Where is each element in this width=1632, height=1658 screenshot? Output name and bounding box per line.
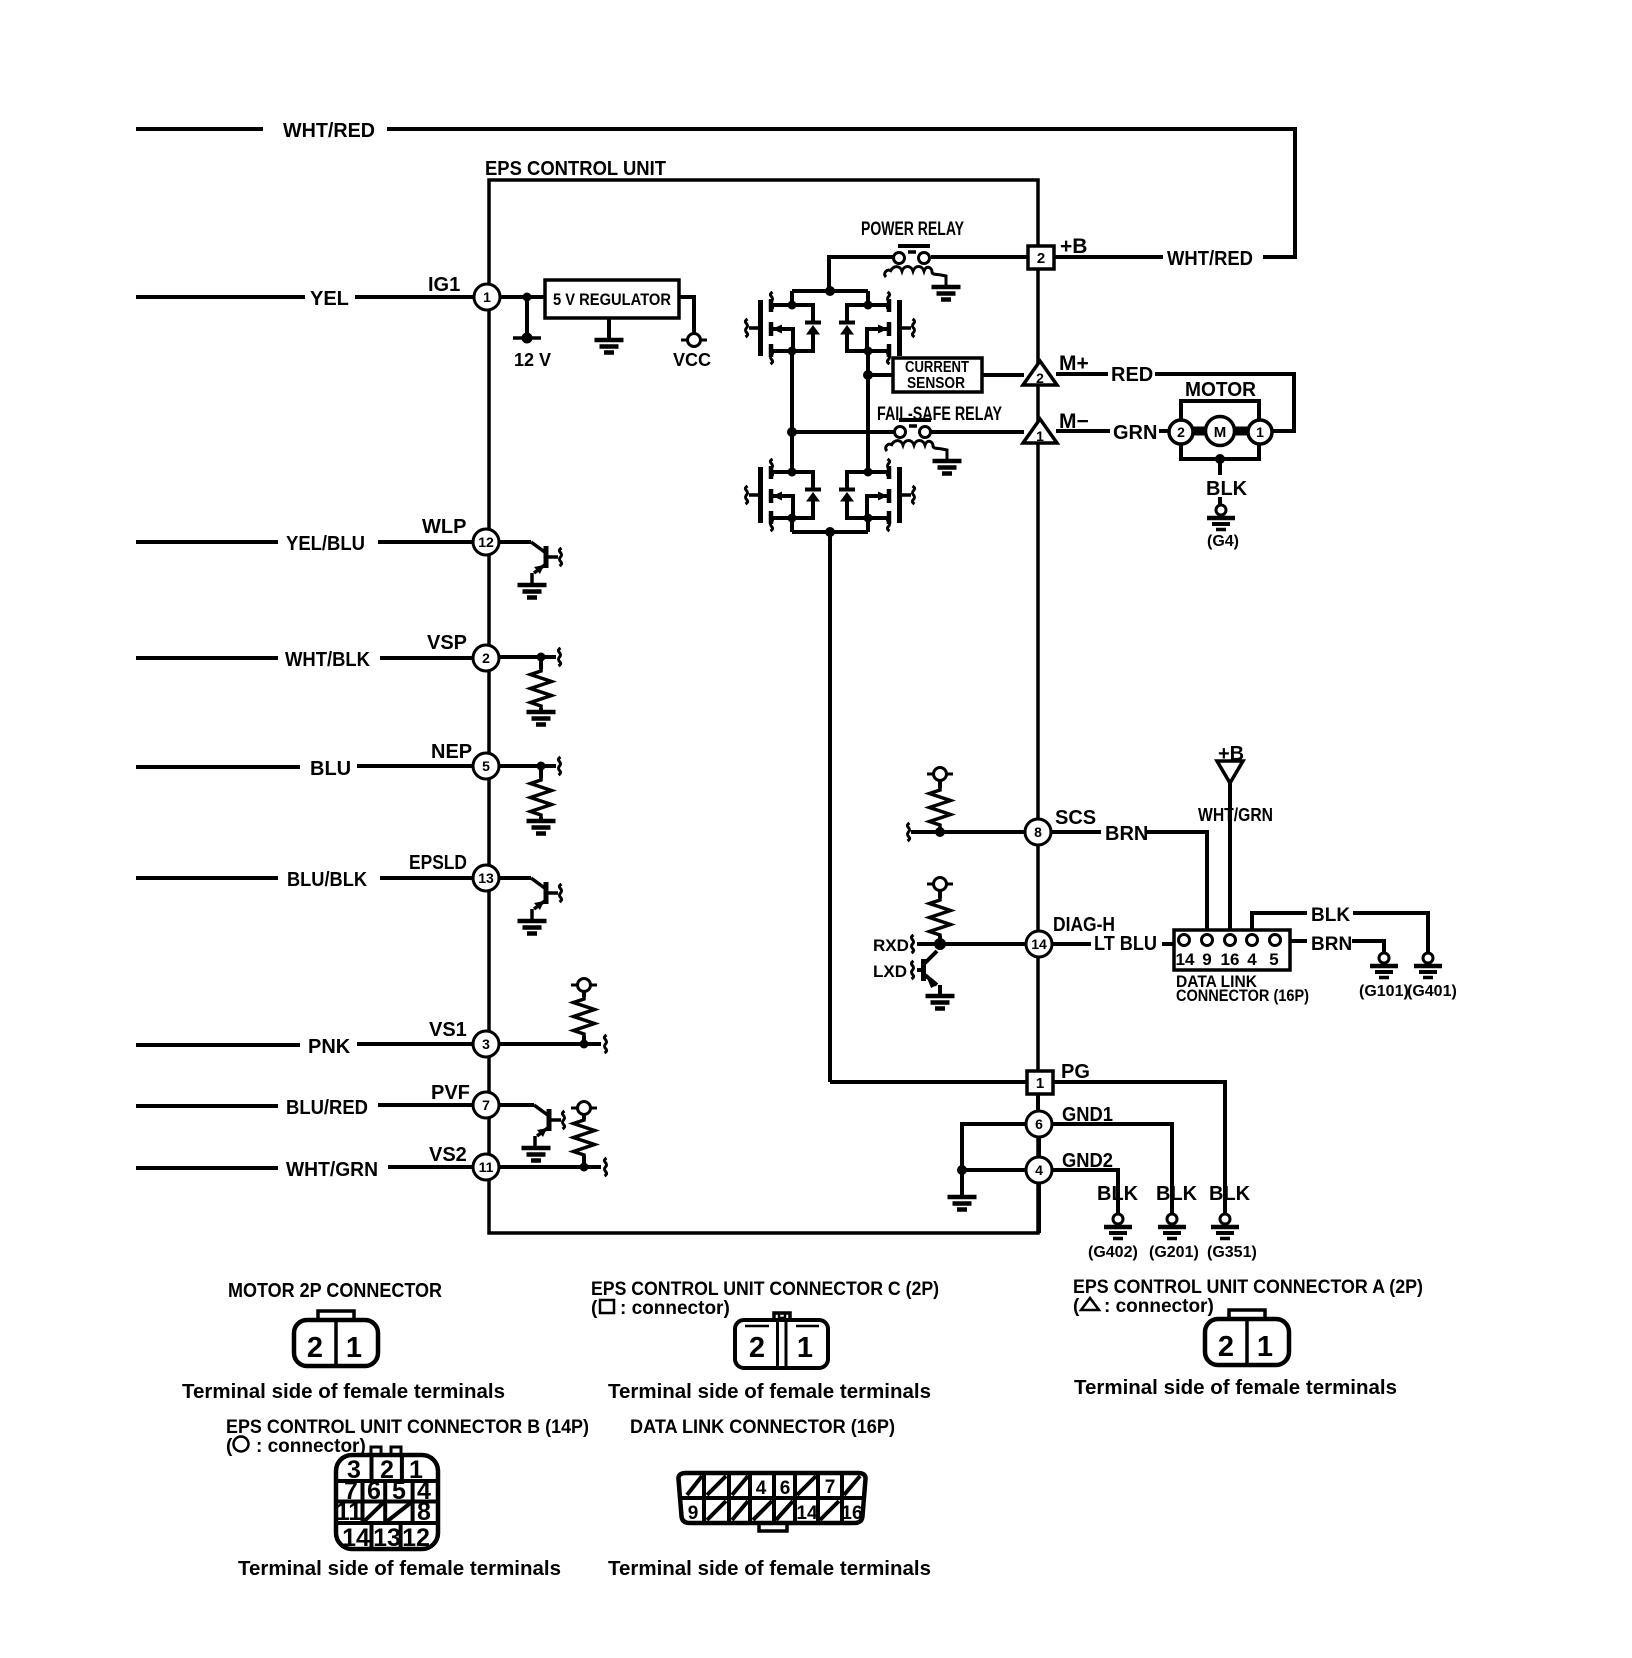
svg-text:2: 2 (307, 1332, 323, 1364)
svg-text:WLP: WLP (422, 516, 466, 538)
svg-text:+B: +B (1218, 743, 1244, 765)
svg-text:NEP: NEP (431, 741, 472, 763)
svg-text:1: 1 (1036, 428, 1044, 444)
svg-text:2: 2 (1218, 1331, 1234, 1363)
svg-text:3: 3 (482, 1036, 490, 1052)
svg-text:+B: +B (1060, 235, 1087, 258)
svg-text:POWER RELAY: POWER RELAY (861, 219, 964, 240)
svg-text:16: 16 (1221, 950, 1240, 969)
svg-text:12 V: 12 V (514, 350, 551, 370)
svg-text:WHT/GRN: WHT/GRN (1198, 805, 1273, 825)
svg-text:7: 7 (482, 1097, 490, 1113)
svg-text:RED: RED (1111, 364, 1153, 386)
svg-text:6: 6 (780, 1478, 791, 1499)
svg-text:2: 2 (1036, 370, 1044, 386)
svg-text:PG: PG (1061, 1061, 1090, 1083)
svg-text:BRN: BRN (1311, 934, 1352, 955)
svg-text:M−: M− (1059, 410, 1089, 433)
svg-text:11: 11 (336, 1498, 363, 1526)
svg-text:BRN: BRN (1105, 823, 1148, 845)
svg-text:4: 4 (1035, 1162, 1043, 1178)
svg-text:6: 6 (1035, 1116, 1043, 1132)
svg-text:M+: M+ (1059, 352, 1089, 375)
svg-text:(: ( (1073, 1296, 1080, 1317)
svg-text:CURRENT: CURRENT (905, 359, 969, 376)
svg-text:VS2: VS2 (429, 1144, 467, 1166)
svg-text:PNK: PNK (308, 1036, 351, 1058)
svg-text:4: 4 (756, 1478, 767, 1499)
svg-text:5: 5 (392, 1477, 406, 1505)
svg-text:(G351): (G351) (1207, 1244, 1257, 1261)
svg-text:BLU/BLK: BLU/BLK (287, 869, 368, 891)
svg-text:(: ( (226, 1436, 233, 1457)
svg-text:BLK: BLK (1156, 1183, 1198, 1205)
svg-text:5: 5 (1269, 950, 1278, 969)
svg-text:BLU: BLU (310, 758, 351, 780)
svg-text:: connector): : connector) (1104, 1296, 1214, 1317)
svg-text:WHT/RED: WHT/RED (283, 120, 375, 142)
svg-text:WHT/RED: WHT/RED (1167, 248, 1253, 270)
svg-text:(G4): (G4) (1207, 533, 1239, 550)
svg-text:(: ( (591, 1298, 598, 1319)
svg-text:14: 14 (1031, 936, 1047, 952)
svg-text:WHT/BLK: WHT/BLK (285, 649, 371, 671)
svg-text:11: 11 (479, 1159, 494, 1175)
svg-text:EPS CONTROL UNIT: EPS CONTROL UNIT (485, 158, 666, 180)
svg-text:EPSLD: EPSLD (409, 852, 467, 874)
svg-text:8: 8 (1034, 824, 1042, 840)
svg-text:Terminal side of female termin: Terminal side of female terminals (182, 1381, 505, 1403)
svg-text:MOTOR 2P CONNECTOR: MOTOR 2P CONNECTOR (228, 1280, 443, 1302)
svg-text:12: 12 (402, 1524, 430, 1552)
svg-text:2: 2 (749, 1332, 765, 1364)
svg-text:Terminal side of female termin: Terminal side of female terminals (1074, 1377, 1397, 1399)
svg-text:BLK: BLK (1209, 1183, 1251, 1205)
svg-text:5 V REGULATOR: 5 V REGULATOR (553, 290, 671, 309)
svg-text:VS1: VS1 (429, 1019, 467, 1041)
svg-text:LXD: LXD (873, 962, 907, 981)
svg-text:Terminal side of female termin: Terminal side of female terminals (608, 1381, 931, 1403)
svg-text:13: 13 (478, 870, 494, 886)
svg-text:Terminal side of female termin: Terminal side of female terminals (608, 1558, 931, 1580)
svg-text:2: 2 (1037, 250, 1045, 267)
svg-text:M: M (1214, 424, 1227, 441)
svg-text:LT BLU: LT BLU (1094, 933, 1157, 955)
svg-text:EPS CONTROL UNIT CONNECTOR B (: EPS CONTROL UNIT CONNECTOR B (14P) (226, 1417, 589, 1438)
svg-text:BLK: BLK (1311, 905, 1350, 926)
svg-text:IG1: IG1 (428, 274, 460, 296)
svg-text:9: 9 (688, 1503, 699, 1524)
svg-text:2: 2 (482, 650, 490, 666)
svg-text:YEL/BLU: YEL/BLU (286, 533, 365, 555)
svg-text:8: 8 (417, 1498, 431, 1526)
svg-text:PVF: PVF (431, 1082, 470, 1104)
svg-text:9: 9 (1202, 950, 1211, 969)
svg-text:1: 1 (483, 289, 491, 305)
svg-text:14: 14 (1176, 950, 1195, 969)
svg-text:6: 6 (367, 1477, 381, 1505)
svg-text:2: 2 (1177, 424, 1185, 440)
svg-text:1: 1 (797, 1332, 813, 1364)
svg-text:(G101): (G101) (1359, 983, 1409, 1000)
svg-text:WHT/GRN: WHT/GRN (286, 1159, 378, 1181)
svg-text:SCS: SCS (1055, 807, 1096, 829)
svg-text:16: 16 (841, 1503, 862, 1524)
svg-text:: connector): : connector) (620, 1298, 730, 1319)
svg-text:EPS CONTROL UNIT CONNECTOR C (: EPS CONTROL UNIT CONNECTOR C (2P) (591, 1279, 939, 1300)
svg-text:EPS CONTROL UNIT CONNECTOR A (: EPS CONTROL UNIT CONNECTOR A (2P) (1073, 1277, 1423, 1298)
svg-text:VCC: VCC (673, 350, 711, 370)
svg-text:(G402): (G402) (1088, 1244, 1138, 1261)
svg-text:1: 1 (1036, 1075, 1044, 1092)
svg-text:DATA LINK CONNECTOR (16P): DATA LINK CONNECTOR (16P) (630, 1417, 895, 1438)
svg-text:BLK: BLK (1206, 478, 1248, 500)
svg-text:GND2: GND2 (1062, 1150, 1113, 1172)
svg-text:12: 12 (478, 534, 494, 550)
svg-text:SENSOR: SENSOR (907, 375, 965, 392)
svg-text:14: 14 (342, 1524, 370, 1552)
svg-text:1: 1 (1257, 1331, 1273, 1363)
svg-text:CONNECTOR (16P): CONNECTOR (16P) (1176, 987, 1309, 1005)
svg-text:FAIL-SAFE RELAY: FAIL-SAFE RELAY (877, 404, 1002, 425)
svg-text:(G401): (G401) (1407, 983, 1457, 1000)
svg-text:13: 13 (373, 1524, 401, 1552)
svg-text:MOTOR: MOTOR (1185, 379, 1257, 401)
svg-text:1: 1 (346, 1332, 362, 1364)
svg-text:BLK: BLK (1097, 1183, 1139, 1205)
svg-text:YEL: YEL (310, 288, 349, 310)
svg-text:BLU/RED: BLU/RED (286, 1097, 368, 1119)
svg-text:GRN: GRN (1113, 422, 1157, 444)
svg-text:5: 5 (482, 758, 490, 774)
svg-text:(G201): (G201) (1149, 1244, 1199, 1261)
svg-text:4: 4 (1247, 950, 1257, 969)
svg-text:Terminal side of female termin: Terminal side of female terminals (238, 1558, 561, 1580)
svg-text:1: 1 (1256, 424, 1264, 440)
svg-text:GND1: GND1 (1062, 1104, 1113, 1126)
svg-text:RXD: RXD (873, 936, 909, 955)
svg-text:VSP: VSP (427, 632, 467, 654)
svg-text:7: 7 (825, 1477, 836, 1498)
svg-text:14: 14 (796, 1503, 818, 1524)
